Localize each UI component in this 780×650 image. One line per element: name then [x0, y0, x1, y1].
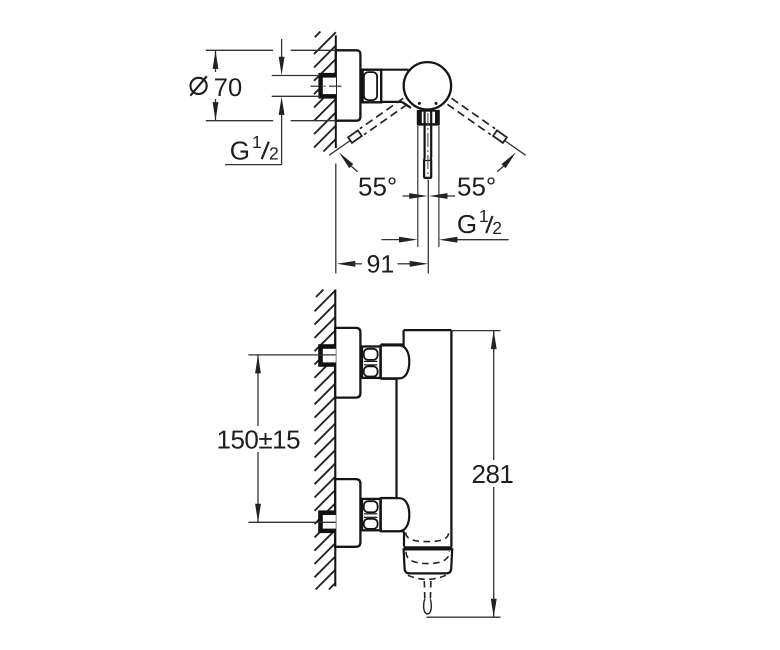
svg-text:1: 1 — [479, 206, 489, 226]
svg-text:55°: 55° — [457, 172, 496, 202]
svg-text:55°: 55° — [358, 172, 397, 202]
svg-text:281: 281 — [472, 459, 514, 489]
svg-text:2: 2 — [269, 144, 279, 164]
svg-text:G: G — [230, 136, 250, 166]
svg-text:2: 2 — [492, 218, 502, 238]
svg-text:G: G — [457, 209, 477, 239]
svg-text:150±15: 150±15 — [217, 424, 301, 454]
svg-text:91: 91 — [367, 251, 395, 279]
svg-text:70: 70 — [214, 74, 242, 102]
svg-text:1: 1 — [252, 132, 262, 152]
